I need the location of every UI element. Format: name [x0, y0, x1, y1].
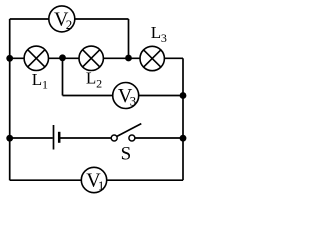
svg-text:1: 1	[42, 78, 48, 92]
svg-text:S: S	[121, 143, 132, 164]
svg-text:2: 2	[96, 76, 102, 90]
svg-text:2: 2	[66, 17, 73, 32]
svg-text:L: L	[86, 69, 96, 88]
svg-text:L: L	[32, 70, 42, 89]
svg-text:3: 3	[130, 93, 137, 108]
svg-text:3: 3	[161, 31, 167, 45]
svg-text:L: L	[151, 23, 161, 42]
svg-text:1: 1	[98, 178, 105, 193]
